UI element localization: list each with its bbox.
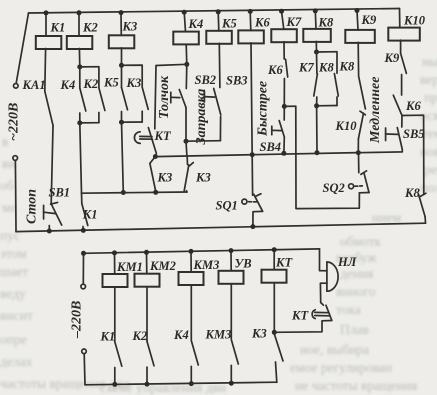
svg-text:веду: веду (0, 286, 26, 301)
limit switch SQ1 circle (242, 199, 247, 204)
contact K6 arm (393, 95, 402, 115)
wire bottom return bus (16, 223, 426, 231)
wire K6 drop (249, 11, 252, 30)
pushbutton Tolchok plunger (170, 92, 172, 103)
limit switch SQ2 arm (364, 173, 369, 193)
contact K4 lower lead (79, 113, 81, 123)
wire lamp branch from bus end (320, 249, 327, 271)
junction (229, 248, 234, 253)
svg-text:К2: К2 (83, 77, 99, 91)
svg-text:пус: пус (0, 228, 20, 243)
pushbutton SB4 stem (272, 129, 281, 131)
relay coil K9 (345, 30, 375, 43)
svg-text:К6: К6 (405, 99, 421, 113)
svg-text:К4: К4 (188, 17, 204, 31)
relay coil K6 (238, 30, 263, 43)
junction (77, 120, 82, 125)
wire K5 drop (217, 12, 220, 31)
wire K4 contact to bus (190, 366, 192, 383)
contact K5 upper lead (121, 65, 123, 87)
wire KT coil down (273, 283, 275, 333)
junction (315, 150, 320, 155)
contact K1 arm (82, 204, 88, 226)
wire KM1 coil down (114, 287, 116, 342)
svg-text:шает: шает (0, 264, 28, 279)
limit switch SQ2 step (359, 192, 369, 194)
wire K5 coil to SB2 (218, 43, 221, 87)
junction (81, 228, 86, 233)
junction (153, 190, 158, 195)
wire middle row bus (155, 153, 358, 157)
contact K1 arm (115, 342, 122, 366)
junction (189, 249, 194, 254)
time relay coil KT (262, 270, 287, 283)
svg-text:КТ: КТ (275, 255, 293, 269)
svg-text:SB1: SB1 (49, 186, 71, 200)
junction (356, 150, 361, 155)
relay coil K5 (206, 31, 232, 44)
junction (272, 330, 277, 335)
relay coil K2 (67, 36, 93, 49)
svg-text:емое регулирован: емое регулирован (290, 360, 392, 375)
svg-text:К4: К4 (173, 328, 189, 342)
relay coil K1 (36, 36, 62, 49)
wire K10 drop from bus end (399, 9, 401, 28)
svg-text:Толчок: Толчок (157, 75, 172, 119)
junction KT to row bus (153, 154, 158, 159)
contact KT dashpot arc (312, 310, 315, 319)
junction (145, 382, 150, 387)
svg-text:К6: К6 (254, 15, 270, 29)
contact KM3 arm (231, 340, 238, 364)
wire K8 drop (314, 11, 317, 29)
wire K2 drop (78, 13, 80, 36)
pushbutton SB4 plunger (271, 126, 273, 135)
contact K7 upper lead (316, 52, 318, 74)
contact K3 NC arm (184, 165, 189, 191)
contact K1 lower lead (82, 227, 84, 231)
svg-text:обмотк: обмотк (340, 234, 382, 249)
wire K10 coil down (400, 40, 402, 53)
pushbutton Tolchok upper lead (185, 64, 188, 88)
pushbutton SB5 plunger (385, 128, 387, 141)
limit switch SQ2 upper lead (358, 153, 360, 173)
wire lower terminal to return bus (83, 354, 86, 385)
svg-text:ны: ны (422, 54, 437, 69)
contact K8 arm (334, 74, 338, 96)
contact K3 NC tick (189, 163, 193, 167)
svg-text:К7: К7 (298, 61, 314, 75)
junction (144, 250, 149, 255)
wire K9 coil down (357, 42, 359, 75)
pushbutton SB1 plunger stem (44, 212, 56, 213)
wire K3 drop (120, 13, 122, 36)
pushbutton SB4 upper lead (283, 106, 285, 120)
junction node A (282, 104, 287, 109)
wire KM1 drop (114, 253, 116, 274)
wire down to interlock node (122, 122, 124, 192)
svg-text:КМ3: КМ3 (193, 258, 220, 272)
wire node to K8 NC branch (402, 115, 424, 194)
wire K6 coil down through row bus to SQ1 (251, 43, 253, 195)
wire K2 contact to bus (146, 367, 148, 384)
wire KM3 drop (190, 251, 192, 272)
svg-text:К1: К1 (50, 21, 66, 35)
wire bus to terminal (82, 253, 84, 283)
svg-text:SB4: SB4 (260, 140, 282, 154)
junction (119, 63, 124, 68)
junction (119, 120, 124, 125)
svg-text:КТ: КТ (154, 129, 172, 143)
wire pair bottom tie (122, 121, 143, 123)
limit switch SQ2 circle (349, 184, 354, 189)
relay coil K3 (109, 35, 135, 48)
wire K4 drop (184, 12, 185, 31)
svg-text:–220В: –220В (70, 301, 85, 339)
terminal -220V lower (82, 349, 87, 354)
contact K1 upper lead (81, 193, 83, 203)
contact KT arm (326, 305, 332, 320)
contact KT dashpot stem (315, 311, 329, 313)
wire KM2 coil down (146, 287, 148, 342)
wire parallel branch tie (80, 67, 99, 88)
svg-text:КМ3: КМ3 (205, 327, 232, 341)
pushbutton SB2 arm (214, 88, 221, 115)
wire K9 drop (357, 11, 358, 30)
lamp NL chord (326, 262, 328, 291)
svg-text:КА1: КА1 (22, 78, 46, 92)
contact K3 NO left of pair under rail (150, 157, 155, 164)
wire K7 drop (282, 11, 284, 29)
junction (77, 64, 82, 69)
svg-text:К2: К2 (132, 329, 148, 343)
junction (216, 9, 221, 14)
wire node B to row bus (316, 106, 318, 153)
svg-text:КМ1: КМ1 (116, 260, 143, 274)
pushbutton SB5 upper lead (401, 116, 403, 128)
wire K3 coil down (121, 48, 123, 66)
wire branch tie (317, 52, 338, 73)
relay coil K10 (388, 28, 420, 41)
contact K4 arm (80, 88, 86, 111)
junction (279, 9, 284, 14)
svg-text:К10: К10 (335, 119, 358, 133)
contact K3 arm (142, 87, 148, 109)
svg-text:рег: рег (424, 162, 437, 177)
junction (281, 151, 286, 156)
svg-text:янного: янного (336, 284, 376, 299)
wire K1 drop (45, 13, 47, 36)
junction (250, 224, 255, 229)
svg-text:делах: делах (0, 354, 33, 369)
wire SB1 to bottom bus (48, 226, 50, 232)
svg-text:К4: К4 (60, 78, 76, 92)
wire lamp out (320, 283, 327, 302)
contact KT low hook (321, 303, 324, 306)
svg-text:К6: К6 (267, 63, 283, 77)
junction (189, 381, 194, 386)
svg-text:К8: К8 (339, 60, 355, 74)
junction (355, 8, 360, 13)
svg-text:висит: висит (0, 308, 33, 323)
contact K9 arm (401, 53, 407, 73)
contact K7 arm (314, 74, 318, 96)
svg-text:нием: нием (372, 210, 401, 225)
contact K2 arm (147, 341, 154, 365)
svg-text:ное, выбира: ное, выбира (300, 342, 369, 357)
junction (112, 250, 117, 255)
wire Tolchok lower lead (185, 108, 187, 142)
contactor coil KM1 (103, 274, 128, 287)
junction (248, 9, 253, 14)
contact KT dashpot stem (140, 135, 152, 137)
wire bottom section return bus (85, 382, 277, 385)
pushbutton SB5 stem (386, 133, 398, 135)
wire left lead to terminal (16, 13, 28, 83)
contact K3 NC upper lead (186, 157, 188, 165)
wire KT contact step to coil node (274, 321, 332, 333)
junction (184, 139, 189, 144)
svg-text:тока: тока (336, 302, 361, 317)
wire top supply bus (29, 9, 400, 14)
pushbutton Tolchok arm (179, 90, 186, 108)
pushbutton SB5 arm (397, 128, 402, 150)
wire KM3 contact to bus (230, 365, 232, 383)
limit switch SQ1 step (253, 211, 263, 226)
svg-text:К3: К3 (195, 170, 211, 184)
relay coil K7 (271, 29, 297, 42)
wire lower terminal to bottom bus (14, 161, 17, 232)
wire UV drop (230, 251, 232, 271)
contact K7 lower lead (316, 97, 318, 106)
wire K3 contact to bus (276, 362, 277, 382)
wire K4 coil down (185, 44, 188, 64)
junction (77, 10, 82, 15)
contact K3 arm (275, 335, 284, 362)
contact K10 NC arm (358, 113, 363, 139)
svg-text:К8: К8 (404, 186, 420, 200)
contact K2 arm (99, 88, 105, 111)
svg-text:SB2: SB2 (195, 73, 217, 87)
svg-text:КТ: КТ (291, 309, 309, 323)
svg-text:К10: К10 (403, 14, 426, 28)
contact KA1 arm (45, 91, 53, 126)
contact K8 NC arm (419, 194, 426, 216)
svg-text:ме: ме (2, 200, 17, 215)
svg-text:К3: К3 (126, 76, 142, 90)
relay coil K8 (303, 29, 331, 42)
wire KM2 drop (146, 252, 148, 273)
pushbutton SB1 plunger (43, 205, 45, 219)
svg-text:К9: К9 (361, 13, 377, 27)
pushbutton SB1 arm (51, 204, 62, 226)
svg-text:Плав: Плав (340, 322, 369, 337)
contact K3 NC lower lead (186, 191, 188, 192)
contact K8 lower lead (336, 97, 338, 106)
contact K8 arm long (359, 76, 366, 109)
junction (313, 8, 318, 13)
junction (272, 247, 277, 252)
terminal ~220V lower (13, 156, 18, 161)
wire down to interlock node (80, 123, 82, 193)
svg-text:SB5: SB5 (403, 127, 425, 141)
wire pair bottom tie (80, 122, 99, 124)
svg-text:SB3: SB3 (226, 73, 248, 87)
pushbutton SB1 NC tick (51, 202, 58, 204)
limit switch SQ1 dashes (249, 201, 252, 203)
wire node A to SQ2 loop (284, 106, 359, 208)
junction (250, 152, 255, 157)
wire SB4 lower lead (283, 138, 285, 154)
svg-text:К7: К7 (286, 15, 302, 29)
rectifier coil UV (219, 271, 244, 284)
contact K3 NO arm (150, 163, 156, 190)
wire K8 coil down (315, 41, 317, 52)
wire parallel branch tie (122, 65, 143, 87)
svg-text:К3: К3 (157, 170, 173, 184)
contact K6 arm (286, 59, 288, 77)
wire UV coil down (230, 284, 232, 340)
contact K5 lower lead (121, 112, 123, 123)
junction (314, 50, 319, 55)
svg-text:этом: этом (0, 246, 27, 261)
svg-text:нов: нов (420, 144, 437, 159)
wire K1 coil to KA1 (44, 49, 47, 92)
svg-text:К9: К9 (384, 51, 400, 65)
wire bottom section supply bus (84, 249, 320, 253)
svg-text:К8: К8 (318, 16, 334, 30)
wire K8 NC to bottom bus (424, 217, 426, 224)
relay coil K4 (173, 32, 199, 45)
contact K2 lower lead (98, 113, 100, 123)
svg-text:опре: опре (0, 332, 27, 347)
svg-text:К3: К3 (122, 20, 138, 34)
junction (112, 382, 117, 387)
junction (182, 10, 187, 15)
junction (47, 229, 52, 234)
terminal -220V upper (81, 284, 86, 289)
svg-text:К8: К8 (318, 60, 334, 74)
wire KM3 coil down (190, 285, 192, 340)
svg-text:К1: К1 (100, 330, 116, 344)
contact K5 arm (122, 88, 128, 110)
svg-text:КМ2: КМ2 (149, 259, 176, 273)
wire K9 to K6 contact (401, 75, 403, 96)
contactor coil KM3 (179, 272, 204, 285)
terminal ~220V upper (14, 84, 19, 89)
svg-text:К5: К5 (103, 76, 119, 90)
contact K6 lower lead (283, 79, 285, 107)
contactor coil KM2 (135, 274, 160, 287)
junction (184, 62, 189, 67)
wire pair bottom tie (317, 105, 337, 107)
contact K4 arm (191, 341, 198, 365)
svg-text:К3: К3 (251, 327, 267, 341)
svg-text:Медленнее: Медленнее (368, 77, 383, 144)
wire SB2 lower lead (219, 117, 221, 141)
svg-text:SQ1: SQ1 (216, 199, 238, 213)
limit switch SQ1 tick (255, 194, 261, 197)
lamp NL arc (327, 262, 338, 291)
contact K8 NC tick (420, 193, 426, 197)
svg-text:К5: К5 (221, 17, 237, 31)
svg-text:SQ2: SQ2 (323, 181, 345, 195)
wire K1 contact to bus (114, 368, 116, 385)
junction (119, 10, 124, 15)
contact K3 lower lead (141, 111, 143, 122)
wire down to row bus (185, 141, 188, 156)
svg-text:УВ: УВ (235, 256, 252, 270)
svg-text:вер: вер (420, 72, 437, 87)
junction (229, 381, 234, 386)
wire K2 coil down (78, 49, 80, 67)
svg-text:Быстрее: Быстрее (256, 81, 271, 137)
contact K4 upper lead (79, 67, 81, 88)
pushbutton SB2 stem (204, 96, 214, 99)
limit switch SQ2 tick (361, 171, 367, 175)
wire SB2 return tie (186, 140, 220, 143)
svg-text:Стоп: Стоп (25, 189, 40, 224)
svg-text:пол: пол (420, 180, 437, 195)
svg-text:при: при (424, 90, 437, 105)
junction (44, 10, 49, 15)
wire K10 NC lower lead (357, 139, 359, 153)
junction (81, 251, 86, 256)
contact K10 NC tick (360, 111, 365, 115)
svg-text:схеме управления дви: схеме управления дви (100, 380, 226, 395)
contact KT arm (148, 128, 156, 154)
svg-text:НЛ: НЛ (337, 255, 357, 269)
svg-text:~220В: ~220В (7, 103, 22, 141)
wire interlock tie (82, 192, 188, 193)
junction node B (314, 103, 319, 108)
pushbutton SB4 arm (279, 121, 284, 138)
limit switch SQ1 arm (254, 194, 263, 211)
contact KT dashpot arc (134, 132, 140, 144)
svg-text:ие частоты вращения: ие частоты вращения (295, 378, 417, 393)
pushbutton SB2 plunger (203, 92, 205, 103)
wire KT drop (273, 250, 275, 270)
wire KA1 to SB1 (51, 126, 53, 203)
pushbutton Tolchok stem (171, 96, 180, 98)
wire branch to KT (155, 64, 187, 129)
limit switch SQ2 dashes (355, 185, 358, 187)
svg-text:об: об (0, 178, 14, 193)
svg-text:К2: К2 (82, 20, 98, 34)
junction (121, 190, 126, 195)
wire SB5 to row bus (358, 150, 402, 153)
wire K7 coil down (283, 42, 285, 59)
